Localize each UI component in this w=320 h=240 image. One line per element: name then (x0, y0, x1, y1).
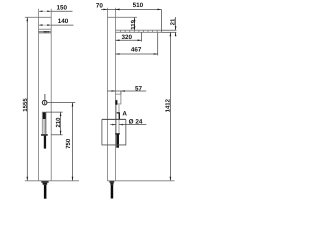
head right edge / 510 extension (160, 9, 162, 32)
floor fitting top (left view) (41, 181, 48, 183)
hand shower handle front (side view) (115, 105, 117, 134)
hand shower wand (bold, front view) (44, 136, 46, 149)
floor line (left view) (25, 180, 79, 182)
floor fitting body (left view) (43, 183, 48, 185)
svg-text:320: 320 (122, 34, 133, 41)
hand shower hook (side view) (116, 94, 121, 104)
dim 70 + 510 shared line (101, 8, 161, 10)
hand shower handle back (side view) (118, 105, 120, 134)
dim 210 top extension (46, 111, 63, 113)
supply pipe (left view) (44, 185, 47, 199)
head band line 3 (front view) (39, 32, 52, 34)
dim 57 right extension (120, 91, 122, 94)
floor fitting body (right view) (110, 183, 113, 185)
dim 1555 line (26, 17, 28, 181)
dim 21 top extension (161, 29, 176, 31)
hand shower wand top cap (side view) (115, 133, 120, 134)
svg-text:Ø 24: Ø 24 (129, 118, 143, 125)
dim 21 bottom extension (161, 31, 176, 33)
side column back edge + dim extension (115, 8, 117, 181)
svg-text:70: 70 (96, 2, 104, 9)
dim 510 arrows (116, 9, 120, 11)
knob level extension line (for 750) (47, 102, 75, 104)
svg-text:119: 119 (130, 19, 137, 29)
dim 210 line (60, 112, 62, 135)
side column top edge + 119 extension (107, 16, 137, 18)
dim 467 right extension (157, 33, 159, 56)
svg-text:1412: 1412 (165, 98, 172, 112)
supply pipe (right view) (111, 185, 114, 199)
svg-text:467: 467 (131, 47, 142, 54)
dim 750 line (72, 103, 74, 181)
dim 210 bottom extension (51, 134, 62, 136)
head band line 2 (front view, darker) (39, 31, 52, 33)
svg-text:A: A (122, 111, 127, 118)
dim 119 line (134, 17, 136, 30)
dim 320 right extension (141, 32, 143, 41)
dim 150 line (39, 10, 52, 12)
svg-text:21: 21 (170, 18, 177, 25)
svg-text:1555: 1555 (22, 98, 29, 112)
hand shower handle line a (43, 119, 45, 134)
diverter lever stem (front view) (44, 94, 45, 100)
dim 140 line (39, 24, 52, 26)
svg-text:150: 150 (57, 4, 68, 11)
hand shower outlet cross bar (41, 134, 48, 136)
hand shower wand (bold, side view) (116, 133, 119, 147)
knob inner tick (44, 101, 45, 104)
hand shower handle line b (44, 119, 46, 134)
svg-text:57: 57 (135, 85, 143, 92)
floor fitting top (right view) (109, 181, 114, 183)
dim 21 arrow below (175, 32, 177, 36)
hand shower head bold (front view) (43, 112, 46, 119)
dim 21 line above (175, 17, 177, 30)
shower head plate top (side view) (116, 29, 162, 31)
side column front edge + dim extension (106, 8, 108, 181)
floor line (right view) (107, 180, 174, 182)
svg-text:210: 210 (55, 117, 62, 128)
dim 320 line (116, 39, 142, 41)
left column top edge + 1555 extension (25, 16, 51, 18)
hook bold part (115, 100, 117, 105)
dim 467 line (116, 53, 158, 55)
svg-text:140: 140 (58, 18, 69, 25)
dim 1412 line (169, 32, 171, 181)
dim dia24 arrows + leader (112, 124, 116, 126)
dim 57 line (107, 90, 146, 92)
left column left edge + dim extension (38, 9, 40, 181)
left column right edge + dim extension (50, 9, 52, 181)
section mark (117, 113, 120, 120)
nozzle ticks (121, 30, 158, 32)
diverter knob circle (42, 100, 47, 105)
hand shower holder outline (front view) (42, 112, 46, 134)
detail box (102, 118, 126, 120)
svg-text:750: 750 (65, 138, 72, 149)
svg-text:510: 510 (133, 2, 144, 9)
shower head plate bottom (side view) (116, 31, 162, 33)
head band line 1 (front view) (39, 28, 52, 30)
